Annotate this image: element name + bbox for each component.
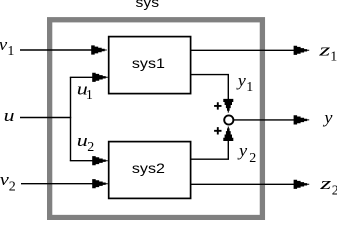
svg-text:2: 2 [9,180,16,195]
arrowhead y2 up [223,126,233,141]
arrowhead u1 [92,73,108,82]
svg-text:v: v [0,35,7,54]
arrowhead y [294,115,310,124]
wire u1 [70,76,98,78]
svg-text:sys1: sys1 [132,56,165,72]
svg-text:2: 2 [87,140,94,155]
outer system boundary box [50,20,263,218]
svg-text:1: 1 [7,44,14,59]
summing junction [224,115,233,124]
svg-text:2: 2 [332,184,337,199]
wire v2 input [21,183,98,185]
plus sign for y1 [214,102,221,109]
wire u branch vertical [70,77,72,160]
arrowhead v2 [92,179,108,188]
arrowhead v1 [91,45,107,54]
svg-text:2: 2 [249,151,256,166]
wire y2 [191,140,228,159]
wire z1 output [191,49,296,51]
block sys1 [109,37,191,94]
arrowhead y1 down [223,99,233,113]
svg-text:1: 1 [246,80,253,95]
arrowhead u2 [92,156,108,165]
svg-text:z: z [319,174,331,193]
svg-text:sys: sys [136,0,160,11]
svg-text:y: y [322,108,332,127]
svg-text:sys2: sys2 [132,161,165,177]
svg-text:1: 1 [86,88,93,103]
svg-text:u: u [77,131,88,150]
svg-text:u: u [4,107,15,125]
plus sign for y2 [214,127,221,134]
arrowhead z1 [294,46,310,55]
wire u2 [70,160,98,162]
svg-text:y: y [236,70,246,90]
wire z2 output [191,183,296,185]
wire y1 [191,75,228,100]
svg-text:y: y [237,141,247,160]
svg-text:1: 1 [330,50,337,65]
wire u input [20,117,71,119]
svg-text:z: z [318,41,330,60]
wire v1 input [20,49,95,51]
wire y output [234,119,297,121]
arrowhead z2 [294,180,310,189]
block sys2 [109,142,191,199]
